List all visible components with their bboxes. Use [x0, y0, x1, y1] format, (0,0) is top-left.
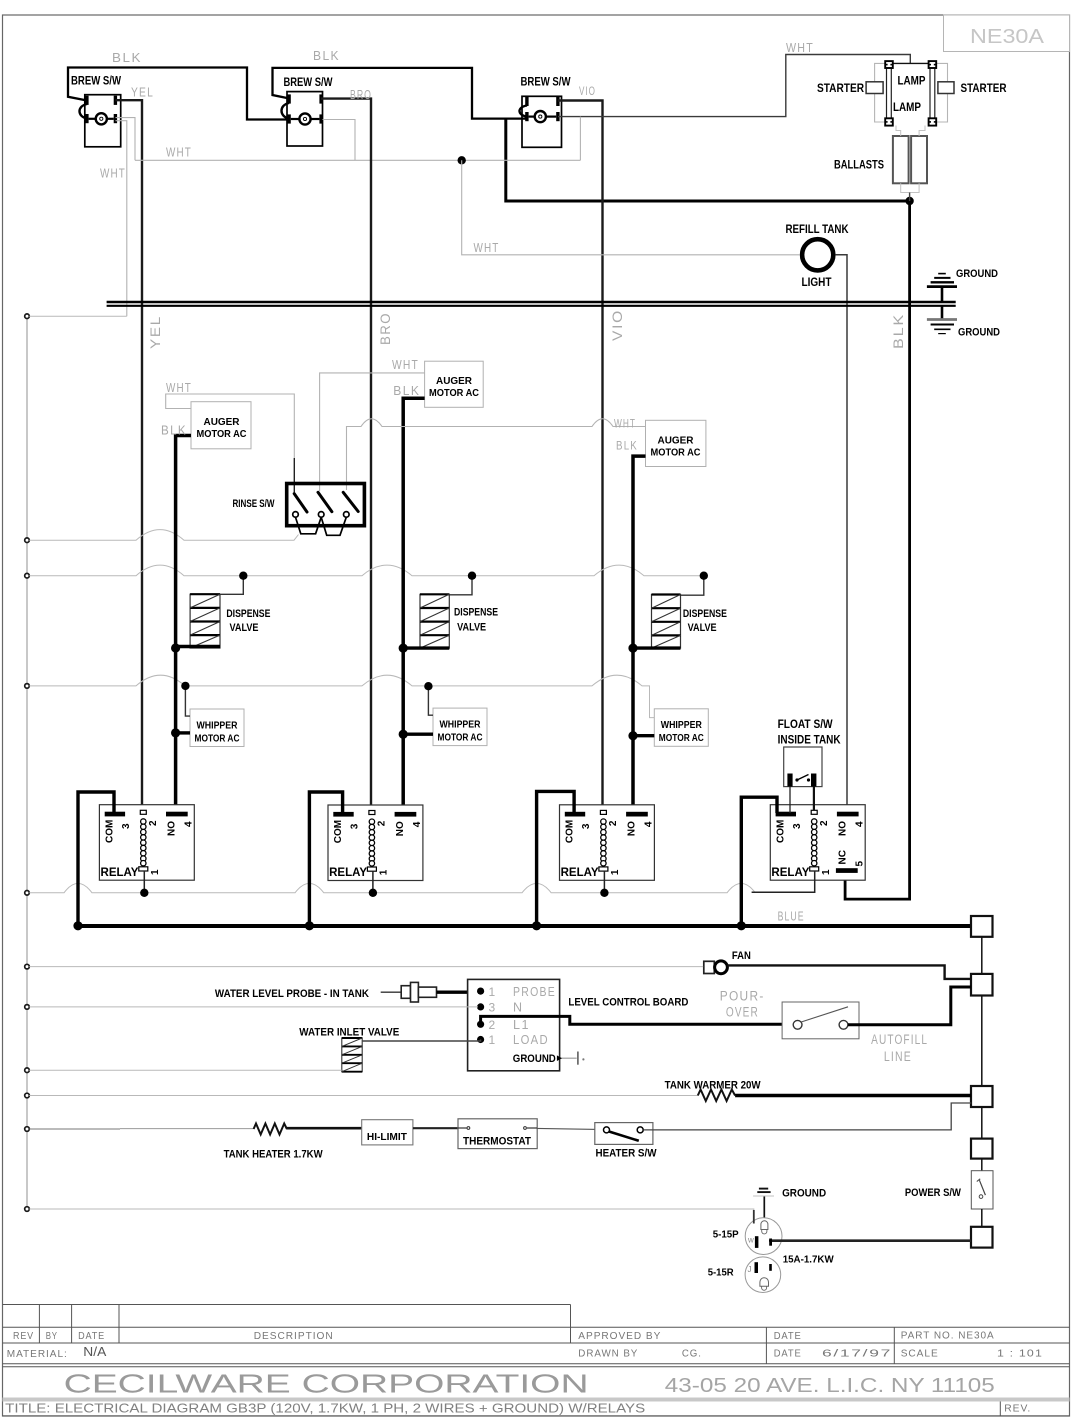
float switch [778, 719, 842, 787]
connector C2 [971, 974, 993, 996]
svg-text:LEVEL CONTROL BOARD: LEVEL CONTROL BOARD [568, 997, 688, 1009]
whipper motor 2 [433, 708, 487, 746]
wire valve2 bottom heavy [403, 646, 449, 649]
wire BLK vertical ballasts to relay4 NC [845, 201, 910, 899]
wire heater switch to C3 [643, 1103, 971, 1130]
refill tank light [786, 224, 850, 289]
svg-text:GROUND: GROUND [958, 327, 1000, 339]
svg-text:BLUE: BLUE [778, 910, 805, 924]
svg-text:GROUND: GROUND [956, 268, 998, 280]
wire valve3 bottom heavy [633, 646, 681, 649]
thermostat [458, 1119, 537, 1149]
level control board [468, 979, 560, 1070]
junction WHT rail to refill light [458, 156, 466, 164]
svg-text:WHIPPER: WHIPPER [661, 720, 703, 731]
svg-text:4: 4 [412, 821, 423, 827]
rinse switch [233, 484, 365, 536]
hi-limit [362, 1120, 413, 1145]
wire fan to C2 [727, 965, 971, 979]
wire WHT auger3 to rinse pole3 [347, 419, 646, 490]
wire relay3 pin1 to rail [603, 871, 605, 893]
wire float left pin to COM [789, 787, 791, 813]
BLUE bus [78, 924, 971, 928]
svg-text:OVER: OVER [726, 1005, 759, 1020]
wire BLK feed down to ballast junction [506, 119, 910, 201]
wire relay2 pin1 to rail [372, 871, 374, 893]
svg-text:COM: COM [775, 820, 786, 843]
wire thermostat to heater switch [537, 1128, 606, 1129]
wire plug to C5 [772, 1239, 971, 1242]
wire L1 board to pour-over [481, 1016, 793, 1024]
svg-text:BLK: BLK [616, 439, 638, 453]
svg-text:POUR-: POUR- [720, 989, 765, 1004]
wire float right pin to pin2 [813, 787, 815, 811]
svg-text:MOTOR AC: MOTOR AC [195, 734, 240, 745]
svg-text:CECILWARE CORPORATION: CECILWARE CORPORATION [64, 1369, 589, 1399]
svg-text:w: w [747, 1236, 754, 1245]
svg-text:RELAY: RELAY [329, 867, 367, 879]
wire refill light to relay4 NO [836, 255, 847, 812]
wire C4 to power switch [981, 1159, 983, 1171]
svg-text:3: 3 [350, 823, 361, 829]
svg-text:RELAY: RELAY [561, 867, 599, 879]
rail 1209 to plug [29, 1209, 754, 1211]
svg-text:WHT: WHT [614, 417, 636, 431]
junction relay3 feed bus [532, 921, 541, 930]
wire power switch to C5 [981, 1209, 983, 1227]
svg-text:PART NO. NE30A: PART NO. NE30A [901, 1330, 995, 1342]
svg-text:2: 2 [819, 820, 830, 826]
wire BLK auger1 channel heavy [176, 436, 191, 812]
svg-text:DRAWN BY: DRAWN BY [578, 1348, 638, 1360]
svg-text:GROUND: GROUND [513, 1053, 556, 1065]
plug ground symbol [753, 1189, 774, 1218]
wire lamp tops [893, 62, 929, 64]
svg-text:BRO: BRO [350, 87, 372, 102]
svg-text:MOTOR AC: MOTOR AC [197, 428, 247, 440]
wire relay1 pin1 to rail [143, 871, 145, 893]
plug 5-15R [708, 1257, 781, 1293]
svg-text:2: 2 [608, 820, 619, 826]
junction relay2 feed bus [305, 921, 314, 930]
rail 686 whipper motors [29, 675, 654, 717]
auger motor 1 [191, 402, 251, 449]
svg-text:WATER INLET VALVE: WATER INLET VALVE [299, 1027, 399, 1039]
starter right [938, 82, 954, 94]
wire relay4 pin1 to rail [752, 871, 815, 892]
wire C2 to C3 [981, 996, 983, 1087]
svg-text:N/A: N/A [83, 1345, 107, 1359]
svg-text:4: 4 [854, 821, 865, 827]
rail 1070 to inlet valve [29, 1069, 342, 1071]
svg-text:REV: REV [13, 1330, 34, 1342]
rail 1129 tank heater [29, 1128, 120, 1130]
rail 317 [29, 315, 127, 317]
svg-text:NE30A: NE30A [970, 26, 1045, 48]
fan [704, 950, 751, 974]
svg-text:4: 4 [184, 821, 195, 827]
brew switch 3 [520, 77, 571, 148]
svg-text:LAMP: LAMP [898, 76, 926, 88]
svg-text:1: 1 [489, 1033, 497, 1047]
brew switch 2 [282, 77, 333, 146]
svg-text:FLOAT S/W: FLOAT S/W [778, 719, 833, 731]
svg-text:WHT: WHT [392, 357, 419, 372]
svg-text:BREW S/W: BREW S/W [521, 77, 571, 89]
svg-text:THERMOSTAT: THERMOSTAT [463, 1136, 531, 1148]
svg-text:YEL: YEL [131, 85, 154, 100]
svg-text:RINSE S/W: RINSE S/W [233, 498, 275, 510]
wire probe to board [437, 991, 481, 994]
svg-text:AUGER: AUGER [658, 435, 694, 447]
svg-text:3: 3 [581, 823, 592, 829]
svg-text:MATERIAL:: MATERIAL: [7, 1348, 68, 1360]
svg-text:5-15P: 5-15P [713, 1229, 739, 1241]
junction whipper1 rail [181, 682, 189, 690]
rail 540 to rinse common [29, 530, 298, 541]
bus line upper [107, 301, 956, 303]
svg-text:LIGHT: LIGHT [802, 277, 832, 289]
svg-text:WATER LEVEL PROBE - IN TANK: WATER LEVEL PROBE - IN TANK [215, 988, 369, 1000]
junction relay2 pin1 [369, 889, 377, 897]
svg-text:AUGER: AUGER [204, 416, 240, 428]
wire WHT to refill light [462, 160, 800, 255]
svg-text:6/17/97: 6/17/97 [822, 1348, 892, 1360]
rail 1095 tank warmer [29, 1095, 698, 1097]
junction whipper2 rail [424, 682, 432, 690]
svg-text:1: 1 [150, 869, 161, 875]
junction whipper3 feed [628, 731, 637, 740]
water inlet valve [299, 1027, 399, 1072]
svg-text:1: 1 [610, 869, 621, 875]
wire whipper1 neutral [185, 686, 190, 716]
junction whipper1 feed [171, 728, 180, 737]
wire valve1 bottom heavy [176, 645, 220, 648]
wire WHT brew3 drop to rail [579, 117, 581, 161]
svg-text:COM: COM [565, 820, 576, 843]
svg-text:DISPENSE: DISPENSE [683, 608, 727, 620]
wire VIO brew3 to relay3 pin2 [558, 101, 603, 811]
wire BLK auger2 channel heavy [403, 398, 424, 812]
plug 5-15P [713, 1218, 782, 1255]
svg-text:WHT: WHT [474, 240, 500, 255]
wire C3 to C4 [981, 1107, 983, 1139]
relay 3 [560, 805, 655, 881]
svg-text:APPROVED BY: APPROVED BY [578, 1330, 661, 1342]
title block [3, 1305, 1070, 1416]
svg-text:COM: COM [105, 820, 116, 843]
svg-text:1 : 101: 1 : 101 [997, 1348, 1043, 1360]
board ground stub [557, 1057, 577, 1059]
svg-text:NO: NO [837, 821, 848, 836]
ground lower symbol [927, 307, 957, 334]
svg-text:LOAD: LOAD [513, 1033, 549, 1047]
wire rail stub to plug [753, 1210, 755, 1224]
rail terminal circles [25, 314, 30, 1211]
wire whipper2 neutral [428, 687, 433, 716]
wire BLK brew1 callout/feed to brew2 [68, 68, 289, 120]
dispense valve 3 [652, 595, 727, 649]
svg-text:WHT: WHT [166, 145, 192, 160]
auger motor 2 [425, 361, 484, 407]
svg-text:NC: NC [837, 850, 848, 864]
wire C1 to C2 [981, 937, 983, 974]
svg-text:5: 5 [854, 861, 865, 867]
svg-text:2: 2 [148, 820, 159, 826]
svg-text:STARTER: STARTER [961, 83, 1008, 95]
wire whipper1 feed heavy [176, 731, 190, 734]
wire pour-over to C2 [848, 987, 971, 1025]
wire tank warmer to C3 [735, 1094, 971, 1097]
svg-text:FAN: FAN [732, 950, 751, 962]
junction valve3 bottom [628, 644, 637, 653]
wire BLK auger3 channel heavy [633, 456, 646, 812]
junction relay1 feed bus [73, 921, 82, 930]
wire WHT neutral brew1 down to left rail [116, 121, 127, 317]
svg-text:2: 2 [377, 820, 388, 826]
connector C1 [971, 916, 993, 937]
svg-text:WHT: WHT [786, 40, 814, 55]
svg-text:L1: L1 [513, 1018, 530, 1032]
part number box NE30A [944, 15, 1070, 52]
resistor tank heater [254, 1124, 287, 1135]
wire WHT brew2 to rail [323, 120, 356, 161]
ballast right [911, 136, 927, 183]
svg-text:MOTOR AC: MOTOR AC [438, 733, 483, 744]
svg-text:MOTOR AC: MOTOR AC [651, 447, 701, 459]
junction valve3 rail [700, 572, 708, 580]
junction whipper2 feed [399, 730, 408, 739]
brew switch 1 [71, 76, 121, 147]
junction relay1 pin1 [140, 889, 148, 897]
left neutral vertical [26, 316, 28, 1209]
svg-text:YEL: YEL [148, 315, 163, 349]
svg-text:NO: NO [395, 821, 406, 836]
svg-text:LAMP: LAMP [893, 102, 921, 114]
svg-text:COM: COM [333, 820, 344, 843]
svg-text:BY: BY [46, 1330, 58, 1342]
wire valve2 top to rail [449, 576, 472, 595]
svg-text:TANK HEATER 1.7KW: TANK HEATER 1.7KW [224, 1149, 324, 1161]
wire relay1 COM feed [78, 792, 114, 926]
relay 2 [328, 805, 423, 881]
svg-text:15A-1.7KW: 15A-1.7KW [783, 1254, 834, 1266]
resistor tank warmer [698, 1090, 735, 1102]
svg-text:3: 3 [792, 823, 803, 829]
junction relay3 pin1 [600, 889, 608, 897]
svg-text:1: 1 [821, 869, 832, 875]
power switch [971, 1171, 993, 1209]
svg-text:VALVE: VALVE [230, 622, 259, 634]
wire WHT brew1 to rail [116, 118, 136, 161]
wire heater to hi-limit [287, 1127, 362, 1130]
svg-text:WHT: WHT [100, 166, 126, 181]
svg-text:AUGER: AUGER [436, 375, 472, 387]
svg-text:REV.: REV. [1004, 1403, 1031, 1415]
title block thick band [3, 1398, 1070, 1402]
svg-text:NO: NO [167, 821, 178, 836]
svg-text:VIO: VIO [610, 309, 625, 341]
whipper motor 1 [190, 709, 244, 747]
junction valve2 bottom [399, 644, 408, 653]
wire valve1 top to rail [220, 576, 243, 595]
lamp tube right [929, 61, 937, 126]
svg-text:GROUND: GROUND [782, 1188, 826, 1200]
svg-text:POWER S/W: POWER S/W [905, 1187, 962, 1199]
lamp bracket right [936, 63, 948, 122]
svg-text:DATE: DATE [774, 1348, 802, 1360]
svg-text:VIO: VIO [579, 84, 596, 98]
svg-text:1: 1 [489, 985, 497, 999]
wire YEL brew1 to relay1 pin2 [116, 100, 143, 810]
svg-text:CG.: CG. [682, 1348, 702, 1360]
connector C5 [971, 1227, 993, 1248]
svg-text:BALLASTS: BALLASTS [834, 160, 884, 172]
svg-text:HI-LIMIT: HI-LIMIT [367, 1131, 408, 1143]
junction ballast/BLK [905, 197, 913, 205]
pour-over switch [782, 1002, 859, 1039]
svg-text:BLK: BLK [891, 313, 906, 349]
svg-text:LINE: LINE [884, 1049, 912, 1064]
svg-text:BREW S/W: BREW S/W [284, 77, 333, 89]
svg-text:MOTOR AC: MOTOR AC [429, 387, 479, 399]
relay 1 [99, 805, 194, 881]
wire WHT brew3 to lamps [558, 55, 910, 117]
rail 576 dispense valves [29, 565, 704, 576]
rail 966 to fan [29, 966, 703, 968]
wire whipper3 feed heavy [633, 734, 654, 737]
svg-text:STARTER: STARTER [817, 83, 865, 95]
ballast left [893, 136, 909, 183]
svg-text:1: 1 [379, 869, 390, 875]
bus line lower [107, 305, 956, 307]
svg-text:DATE: DATE [774, 1330, 802, 1342]
svg-text:N: N [513, 1001, 524, 1015]
wire relay3 COM feed [537, 791, 575, 925]
svg-text:WHT: WHT [166, 380, 192, 395]
starter left [866, 82, 883, 94]
lamp tube left [885, 61, 893, 126]
svg-text:DISPENSE: DISPENSE [454, 607, 498, 619]
wire whipper2 feed heavy [403, 733, 433, 736]
wire WHT auger1 to rinse pole1 [166, 394, 295, 458]
wire ballast stubs [896, 126, 901, 137]
dispense valve 1 [190, 594, 270, 648]
water level probe [215, 982, 437, 1002]
lamp bracket left [875, 63, 886, 122]
svg-text:TANK WARMER 20W: TANK WARMER 20W [665, 1080, 762, 1092]
svg-text:3: 3 [489, 1001, 497, 1015]
svg-text:INSIDE TANK: INSIDE TANK [778, 735, 842, 747]
svg-text:43-05 20 AVE. L.I.C. NY 111: 43-05 20 AVE. L.I.C. NY 11105 [665, 1375, 995, 1397]
svg-text:RELAY: RELAY [771, 867, 809, 879]
wire BRO brew2 to relay2 pin2 [321, 99, 371, 811]
junction relay4 feed bus [737, 921, 746, 930]
relay 4 [770, 805, 865, 881]
svg-text:3: 3 [121, 823, 132, 829]
wire inlet valve to board LOAD [362, 1040, 480, 1042]
svg-text:VALVE: VALVE [457, 622, 486, 634]
svg-text:BLK: BLK [393, 383, 420, 398]
svg-text:VALVE: VALVE [688, 622, 717, 634]
dispense valve 2 [420, 594, 498, 648]
svg-text:WHIPPER: WHIPPER [197, 721, 239, 732]
ground top symbol [927, 274, 957, 301]
svg-text:MOTOR AC: MOTOR AC [659, 733, 704, 744]
connector C4 [971, 1139, 993, 1159]
svg-text:BRO: BRO [378, 312, 393, 345]
wire valve3 top to rail [681, 576, 704, 596]
svg-text:PROBE: PROBE [513, 985, 556, 999]
svg-text:AUTOFILL: AUTOFILL [871, 1032, 928, 1047]
wire BLK brew2 callout/feed to brew3 [273, 68, 527, 119]
svg-text:DISPENSE: DISPENSE [226, 608, 270, 620]
svg-text:BLK: BLK [161, 423, 187, 438]
wire hi-limit to thermostat [413, 1127, 458, 1129]
svg-text:DESCRIPTION: DESCRIPTION [254, 1330, 334, 1342]
svg-text:WHIPPER: WHIPPER [440, 720, 482, 731]
wire WHT rail connecting brew switches [135, 159, 580, 161]
wire relay4 COM feed [741, 797, 777, 926]
svg-text:5-15R: 5-15R [708, 1267, 734, 1279]
svg-text:BLK: BLK [313, 48, 340, 63]
svg-text:DATE: DATE [78, 1330, 105, 1342]
junction valve1 rail [239, 572, 247, 580]
svg-text:BLK: BLK [112, 50, 142, 65]
auger motor 3 [646, 420, 706, 466]
svg-text:4: 4 [644, 821, 655, 827]
junction valve1 bottom [171, 643, 180, 652]
wire relay2 COM feed [309, 792, 342, 926]
svg-text:2: 2 [489, 1018, 497, 1032]
svg-text:REFILL TANK: REFILL TANK [786, 224, 850, 236]
rail 893 relay coils [29, 883, 755, 892]
svg-text:RELAY: RELAY [101, 867, 139, 879]
wire WHT auger2 to rinse pole2 [320, 373, 425, 491]
svg-text:HEATER S/W: HEATER S/W [596, 1148, 658, 1160]
whipper motor 3 [654, 709, 708, 747]
svg-text:J: J [748, 1265, 752, 1274]
svg-text:SCALE: SCALE [901, 1348, 939, 1360]
svg-text:BREW S/W: BREW S/W [71, 76, 121, 88]
svg-text:NO: NO [627, 821, 638, 836]
svg-text:TITLE: ELECTRICAL DIAGRAM GB3: TITLE: ELECTRICAL DIAGRAM GB3P (120V, 1.… [5, 1401, 645, 1416]
junction valve2 rail [468, 572, 476, 580]
rail 1007 to board N [29, 1006, 478, 1008]
connector C3 [971, 1086, 993, 1107]
heater switch [595, 1123, 657, 1160]
